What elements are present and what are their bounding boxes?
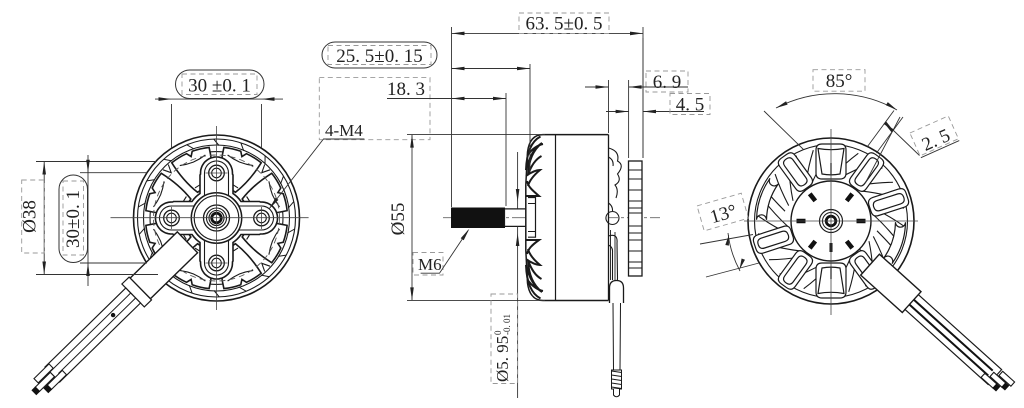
svg-text:4-M4: 4-M4 [325,121,363,140]
side view: wire bend cover [610,281,624,304]
dim 25.5±0.15: extension line [529,64,531,172]
front view: wire bundle sleeve [130,232,198,299]
dim 6.9: extension lines [609,80,629,158]
back view: fan blades [758,148,904,295]
dim Φ38: label [22,180,45,253]
front view: 4 M4 screw holes [209,165,225,181]
front view: hub circles [191,193,241,243]
dim 6.9: label [646,71,688,92]
label M6 [413,253,443,276]
side view: hanging wire [613,303,621,370]
svg-text:6. 9: 6. 9 [653,72,682,93]
side view: wire channel [611,230,616,280]
back view: spoke beams [753,144,908,298]
dim 13°: angle lines [700,235,759,278]
side view: bell face leaves [526,137,543,299]
dim 6.9: dimension line [585,86,688,88]
dim Φ38: extension lines [36,162,158,275]
side view: body right edge [608,135,610,301]
back view: rim inner circle [755,145,908,298]
dim 25.5±0.15: stadium label [322,42,437,68]
dim Φ5.95: label [491,294,518,384]
svg-text:4. 5: 4. 5 [676,95,705,116]
dim 85°: label [813,70,865,92]
front view: mounting cross inner contour [160,161,274,275]
dim 4.5: extension line [642,38,644,158]
annotation block dashed box (18.3 / 4-M4) [319,78,430,140]
dim 85°: angle lines [764,111,900,183]
back view: internal wire channel [840,236,878,272]
dim Φ55: dimension line [411,135,413,301]
dim 63.5±0.5: dimension line [452,32,644,34]
dim 4.5: dimension line [606,111,704,113]
front view: wire dot [111,313,115,317]
back view: wires [905,295,1002,385]
back view: rim arc slots [757,178,906,263]
dim 63.5±0.5: extension lines [452,27,644,207]
front view: coil inner lines [154,155,280,281]
dim 13°: label [697,193,748,231]
svg-text:25. 5±0. 15: 25. 5±0. 15 [336,46,422,67]
front view: mounting cross outer contour [156,157,278,279]
svg-text:63. 5±0. 5: 63. 5±0. 5 [526,14,603,35]
back view: hub bottom mark [830,243,833,252]
dim 2.5: leader [893,130,920,156]
dim 85°: arc [776,94,897,110]
dim 30±0.1 horizontal: dimension line [155,98,283,100]
front view: center crosshair [216,126,218,310]
dim Φ55: extension lines [407,135,545,301]
back view: wire tips solder [993,383,1009,391]
back view: slot I-marks [830,163,832,279]
svg-text:85°: 85° [826,71,853,92]
back view: crosshair [830,129,832,315]
front view: magnet ring circle [144,145,290,291]
svg-text:Ø5. 95: Ø5. 95 [493,336,512,382]
front view: slot wedges [150,152,283,285]
dim 13°: arc [728,233,740,271]
dim 25.5±0.15: dimension line [452,68,531,70]
dim 2.5: label [910,116,960,159]
back view: spoke pill slots [758,158,904,284]
svg-text:Ø38: Ø38 [20,200,41,233]
side view: centerline [443,217,660,219]
dim 30±0.1 vertical: dimension line [87,155,89,286]
front view: shaft bore [212,213,222,223]
svg-text:M6: M6 [418,255,442,274]
svg-text:Ø55: Ø55 [388,203,409,236]
back view: hub plate [791,181,871,261]
dim 30±0.1 vertical: extension lines [80,173,147,263]
dim 30±0.1 horizontal: stadium label [176,70,265,99]
dim 18.3: extension line [505,93,507,206]
back view: wire end stubs [981,371,1015,388]
dim Φ5.95: leader lines [517,152,519,398]
svg-text:-0. 01: -0. 01 [502,314,512,335]
front view: inner rim circle [138,139,296,297]
dim 18.3: dimension line [387,98,506,100]
back view: center grommet [820,210,843,233]
back view: trapezoid slots [818,149,844,294]
svg-text:30 ±0. 1: 30 ±0. 1 [188,76,251,97]
front view: stator coils [146,147,287,288]
label M6 leader [421,231,468,274]
label 4-M4 leader [269,139,364,209]
side view: threaded shaft M6 (black) [452,208,505,228]
svg-text:18. 3: 18. 3 [387,79,425,100]
side view: base bumps column [606,148,621,288]
svg-text:30±0. 1: 30±0. 1 [63,190,84,248]
side view: wire ribbed tip [612,370,622,389]
front view: dashed pitch circle [154,155,280,281]
front view: magnet separator ticks [138,139,294,297]
side view: bell/stator boundary line [555,135,557,301]
front view: wire tips solder [32,385,51,394]
side view: shaft [505,209,529,227]
back view: outer circle [748,138,914,304]
front view: wires [45,288,141,382]
dim Φ38: dimension line [43,162,45,275]
dim 63.5±0.5: label [519,13,609,34]
back view: wire sleeve [861,254,921,312]
side view: mount ladder strip [629,161,643,276]
front view: outer bell circle [134,135,300,301]
back view: hub tick marks [797,193,865,249]
dim 4.5: label [670,94,710,115]
dim 30±0.1 vertical: stadium label [59,175,88,263]
side view: bell outline [526,135,609,301]
front view: wire end stubs [34,364,67,392]
side view: bell bearing boss [528,198,536,238]
dim 2.5: edge lines [868,111,904,154]
dim 30±0.1 horizontal: extension lines [172,104,262,148]
